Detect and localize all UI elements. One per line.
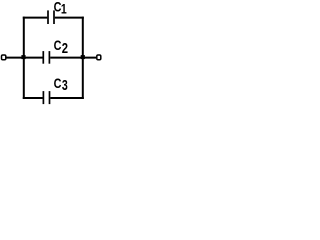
- svg-text:C: C: [54, 38, 62, 54]
- wire: bottom-left corner to C3: [23, 97, 43, 99]
- node B junction dot: [81, 55, 85, 59]
- svg-text:3: 3: [62, 77, 68, 93]
- wire: left terminal to node A: [6, 57, 24, 59]
- wire: C1 to top-right corner: [55, 17, 84, 19]
- node A junction dot: [21, 55, 25, 59]
- capacitor C3: [43, 91, 49, 104]
- wire: node A to C2: [24, 57, 43, 59]
- wire: left vertical bus: [23, 17, 25, 99]
- capacitor C2: [43, 51, 49, 64]
- wire: C3 to bottom-right corner: [50, 97, 84, 99]
- terminal: left input: [2, 55, 6, 60]
- label C2: [54, 38, 68, 57]
- wire: C2 to node B: [50, 57, 96, 59]
- label C1: [54, 0, 67, 17]
- svg-text:2: 2: [62, 40, 68, 57]
- wire: top-left corner to C1: [23, 17, 48, 19]
- capacitor C1: [48, 10, 54, 24]
- label C3: [54, 76, 68, 94]
- wire: right vertical bus: [82, 17, 84, 99]
- svg-text:C: C: [54, 76, 62, 92]
- svg-text:1: 1: [61, 1, 67, 17]
- terminal: right output: [97, 55, 101, 60]
